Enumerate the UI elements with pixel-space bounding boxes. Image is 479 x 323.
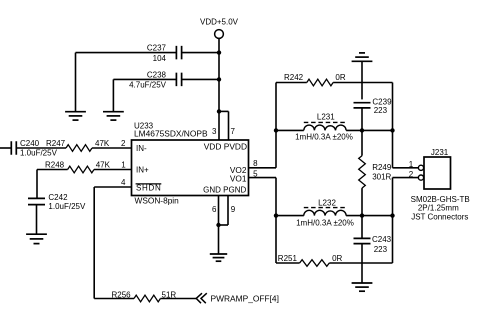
wire IN+ corner: [37, 170, 68, 199]
ground C238: [103, 112, 124, 120]
wire pin 7 PVDD: [219, 111, 229, 140]
pin number 1: [121, 161, 126, 170]
off-page connector PWRAMP_OFF[4]: [196, 293, 279, 303]
svg-text:1mH/0.3A ±20%: 1mH/0.3A ±20%: [296, 219, 354, 228]
svg-text:1: 1: [409, 160, 414, 169]
svg-text:R251: R251: [278, 254, 298, 263]
wire pin 9 PGND: [219, 196, 229, 226]
wire VO1 rail: [275, 178, 277, 263]
wire IN- net segment A: [0, 147, 11, 149]
svg-text:IN-: IN-: [136, 144, 147, 153]
svg-text:R249: R249: [372, 163, 392, 172]
svg-text:C243: C243: [372, 235, 392, 244]
connector J231 description: [411, 195, 470, 222]
capacitor C238: [113, 70, 219, 89]
wire VO2 rail: [275, 83, 277, 168]
svg-text:6: 6: [212, 205, 217, 214]
svg-text:9: 9: [231, 205, 236, 214]
wire R247 to pin 2: [92, 147, 132, 149]
svg-text:223: 223: [374, 245, 388, 254]
svg-text:R242: R242: [284, 73, 304, 82]
svg-text:0R: 0R: [335, 73, 345, 82]
svg-text:1.0uF/25V: 1.0uF/25V: [20, 148, 58, 157]
pin number 9: [231, 205, 236, 214]
junction L232/C243: [360, 213, 364, 217]
svg-text:SHDN: SHDN: [136, 184, 161, 193]
svg-text:R256: R256: [112, 291, 132, 300]
svg-text:GND PGND: GND PGND: [203, 186, 246, 195]
resistor R242: [276, 73, 393, 86]
wire pin 3 VDD: [218, 111, 220, 140]
svg-text:J231: J231: [431, 148, 449, 157]
junction C238/VDD: [217, 77, 221, 81]
junction L231/C239: [360, 128, 364, 132]
pin number 2: [121, 139, 126, 148]
junction VO2/L231: [274, 128, 278, 132]
junction pin6/pin9: [216, 223, 220, 227]
capacitor C239: [354, 61, 393, 130]
svg-text:2: 2: [409, 170, 414, 179]
wire C238 to ground: [112, 79, 114, 111]
resistor R247: [46, 139, 110, 151]
svg-text:R248: R248: [45, 161, 65, 170]
ground C239 inverted: [352, 53, 373, 61]
svg-text:VO1: VO1: [230, 174, 247, 184]
svg-text:C237: C237: [147, 44, 167, 53]
svg-text:L232: L232: [318, 199, 336, 208]
svg-text:3: 3: [212, 127, 217, 136]
svg-text:104: 104: [153, 54, 167, 63]
wire chip ground: [218, 225, 220, 254]
svg-text:1: 1: [121, 161, 126, 170]
wire right rail lower: [393, 178, 419, 263]
junction C237/VDD: [217, 50, 221, 54]
svg-text:47K: 47K: [96, 161, 111, 170]
junction VO1/L232: [274, 213, 278, 217]
svg-text:PWRAMP_OFF[4]: PWRAMP_OFF[4]: [211, 294, 279, 304]
ground chip: [210, 254, 227, 261]
pin number 8: [253, 159, 258, 168]
ground C237: [65, 112, 86, 120]
connector J231 body: [424, 148, 451, 189]
svg-text:2: 2: [121, 139, 126, 148]
svg-text:C240: C240: [20, 139, 40, 148]
pin number 3: [212, 127, 217, 136]
svg-text:LM4675SDX/NOPB: LM4675SDX/NOPB: [134, 129, 208, 139]
pin number 5: [253, 170, 258, 179]
resistor R249: [359, 130, 392, 215]
pin number 7: [231, 127, 236, 136]
capacitor C242: [28, 193, 86, 234]
resistor R256: [94, 291, 196, 302]
svg-text:4.7uF/25V: 4.7uF/25V: [129, 81, 167, 90]
svg-text:VDD PVDD: VDD PVDD: [204, 142, 247, 152]
resistor R248: [45, 161, 111, 173]
svg-text:1mH/0.3A ±20%: 1mH/0.3A ±20%: [295, 133, 353, 142]
connector J231 pin 1: [409, 160, 424, 170]
power symbol VDD+5.0V: [200, 18, 239, 53]
svg-text:0R: 0R: [332, 254, 342, 263]
svg-text:2P/1.25mm: 2P/1.25mm: [418, 204, 459, 213]
svg-text:301R: 301R: [372, 173, 391, 182]
wire R248 to pin 1: [94, 169, 132, 171]
svg-text:47K: 47K: [95, 139, 110, 148]
svg-text:IN+: IN+: [136, 166, 149, 175]
svg-text:5: 5: [253, 170, 258, 179]
resistor R251: [276, 254, 393, 266]
capacitor C243: [354, 216, 392, 283]
wire VDD rail: [218, 53, 220, 112]
inductor L231: [276, 113, 393, 142]
svg-text:223: 223: [374, 106, 388, 115]
wire pin 5 VO1: [249, 177, 277, 179]
svg-text:4: 4: [121, 178, 126, 187]
svg-text:WSON-8pin: WSON-8pin: [135, 196, 180, 206]
svg-text:VDD+5.0V: VDD+5.0V: [200, 18, 239, 27]
capacitor C240: [11, 139, 66, 157]
wire SHDN pin 4: [94, 187, 131, 299]
wire right rail upper: [393, 83, 419, 168]
svg-text:C242: C242: [48, 193, 68, 202]
wire pin 8 VO2: [249, 167, 277, 169]
wire C237 to ground: [75, 53, 77, 112]
ground C243: [352, 283, 373, 291]
svg-text:JST Connectors: JST Connectors: [411, 213, 468, 222]
junction right rail L231: [390, 128, 394, 132]
connector J231 pin 2: [409, 170, 424, 180]
wire pin 6 GND: [218, 196, 220, 226]
ground C242: [26, 234, 47, 243]
svg-text:7: 7: [231, 127, 236, 136]
pin number 4: [121, 178, 126, 187]
svg-text:1.0uF/25V: 1.0uF/25V: [48, 202, 86, 211]
junction VDD pin3/pin7: [217, 109, 221, 113]
svg-text:C238: C238: [147, 70, 167, 79]
capacitor C237: [76, 44, 220, 63]
pin number 6: [212, 205, 217, 214]
svg-text:R247: R247: [46, 139, 66, 148]
svg-text:8: 8: [253, 159, 258, 168]
IC U233 LM4675SDX/NOPB body: [132, 122, 249, 206]
svg-text:L231: L231: [317, 113, 335, 122]
junction right rail L232: [390, 213, 394, 217]
inductor L232: [276, 199, 393, 228]
